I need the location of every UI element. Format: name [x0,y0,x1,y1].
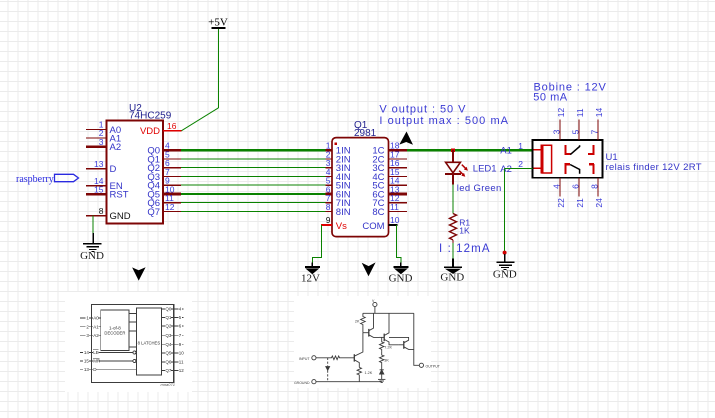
Q1 pin 16 3C [372,158,407,174]
cell clamp diode [380,370,384,379]
IC U2 74HC259 [107,103,172,224]
Q1 pin1 marker [335,143,338,146]
relay pin 8/24 bottom stub [589,178,604,208]
svg-text:22: 22 [556,198,566,208]
wire Vs to 12V supply [312,225,321,266]
block output lead [162,369,184,371]
svg-text:1-of-8: 1-of-8 [109,325,121,330]
net label raspberry [16,174,79,185]
cell transistor T1 [363,313,379,337]
svg-text:2K: 2K [355,320,360,324]
svg-text:7: 7 [589,129,599,134]
block output lead [162,352,184,354]
Q1 pin 14 5C [372,176,407,192]
Q1 pin 1 1IN [326,141,351,157]
svg-text:12V: 12V [301,272,320,284]
U2 pin 6 Q2 [147,158,181,174]
cell input terminal [312,356,316,360]
svg-text:Vs: Vs [336,221,347,232]
relay pin A1 [500,141,523,157]
svg-text:OUTPUT: OUTPUT [426,364,441,368]
Q1 pin 10 COM [362,215,399,232]
svg-text:15: 15 [84,359,90,364]
Q1 pin 4 4IN [326,167,351,183]
relay contact upper fixed 7 [588,145,594,154]
inverter bubble LE [133,351,136,354]
ground GND under R1 [440,267,464,284]
svg-text:led Green: led Green [457,183,502,194]
cell base-emitter diode dashed [327,358,329,382]
supply symbol 12V [301,267,320,285]
svg-text:11: 11 [179,359,184,364]
decoder to latches line [129,321,136,323]
cell tiny labels [294,299,441,385]
svg-text:11: 11 [390,202,399,212]
svg-text:GND: GND [110,211,131,222]
cell Vs terminal [373,302,377,306]
ground GND under A2 [493,254,517,280]
svg-text:5: 5 [570,129,580,134]
power +5V [208,17,228,29]
wire Q0 to 1IN [181,149,326,151]
svg-text:10: 10 [179,351,185,356]
U2 pin 12 Q7 [147,202,181,218]
overline LE [93,349,98,351]
relay pin 5/11 top stub [570,108,585,140]
annotation arrow down between 12V and GND [362,262,376,276]
cell middle resistor chain [380,337,384,351]
svg-text:COM: COM [362,221,384,232]
svg-text:I output max : 500 mA: I output max : 500 mA [379,115,509,127]
block diagram labels [84,307,184,373]
svg-text:RST: RST [110,190,129,201]
block input lead D pin 13 [80,368,136,370]
svg-text:Q1: Q1 [165,315,172,320]
svg-text:VDD: VDD [140,126,160,137]
svg-text:V output : 50 V: V output : 50 V [379,104,466,116]
svg-text:8: 8 [99,206,104,216]
Q1 pin 11 8C [372,202,407,218]
Q1 pin 15 4C [372,167,407,183]
relay contact upper mover 5 [570,145,579,154]
svg-text:A0: A0 [93,316,99,321]
U2 pin 1 A0 [86,120,121,136]
wire 1C to relay A1 [407,149,533,151]
svg-text:14: 14 [84,350,90,355]
svg-text:13: 13 [84,367,90,372]
svg-text:12: 12 [165,202,175,212]
svg-text:7.2K: 7.2K [384,346,392,350]
wire Q1 to 2IN [181,158,326,160]
Q1 pin 18 1C [372,141,407,157]
junction node LED anode [451,148,455,152]
block output lead [162,334,184,336]
svg-text:Q4: Q4 [165,342,172,347]
figure 2981 driver cell background [294,296,431,388]
overline MR [93,357,99,359]
svg-text:74HC259: 74HC259 [129,111,172,122]
svg-text:Q0: Q0 [165,307,172,312]
svg-text:8: 8 [589,184,599,189]
wire relay A2 to ground [504,168,532,251]
svg-text:raspberry: raspberry [16,174,54,185]
wire Q7 to 8IN [181,210,326,212]
svg-text:Q3: Q3 [165,333,172,338]
block input lead A1 pin 2 [80,326,101,328]
U2 pin 2 A1 [86,128,121,144]
wire Q4 to 5IN [181,184,326,186]
svg-text:D: D [110,164,117,175]
svg-text:8: 8 [326,202,331,212]
wire LED to R1 [452,185,454,214]
cell transistor T2 [379,313,399,345]
junction node A2 ground [503,251,507,255]
U2 pin 5 Q1 [147,149,181,165]
cell resistor 2K [361,313,366,332]
relay pin 3/12 top stub [551,107,566,140]
relay contact lower fixed 8 [589,164,594,174]
block 1-of-8 decoder [101,310,129,351]
svg-text:10: 10 [390,215,400,225]
U2 pin 9 Q4 [147,176,181,192]
svg-text:A2: A2 [500,164,512,175]
block input lead MR pin 15 [80,360,136,362]
figure 74HC259 block diagram background [65,292,192,392]
ground GND under U2 [80,244,104,262]
svg-text:14: 14 [594,107,604,117]
svg-text:Q2: Q2 [165,324,172,329]
Q1 pin 6 6IN [326,184,351,200]
svg-text:+5V: +5V [208,17,228,29]
svg-text:12: 12 [179,368,185,373]
decoder to latches line [129,346,136,348]
svg-text:GND: GND [493,268,517,280]
cell input resistor [316,356,354,360]
relay pin 7/14 top stub [589,107,604,140]
Q1 pin 13 6C [372,184,407,200]
svg-text:GND: GND [440,272,464,284]
U2 pin 7 Q3 [147,167,181,183]
block output lead [162,316,184,318]
svg-text:3: 3 [99,137,104,147]
svg-text:mna071: mna071 [161,382,175,387]
cell right rail to output [414,313,420,365]
svg-text:A2: A2 [93,333,99,338]
relay pin 4/22 bottom stub [551,178,566,208]
svg-text:6: 6 [570,184,580,189]
Q1 pin 3 3IN [326,158,351,174]
annotation arrow up near Q1 pin 18 [399,132,413,145]
relay pin A2 [500,159,523,175]
cell emitter resistor 1.2K [357,367,361,381]
resistor R1 1K [450,214,471,244]
svg-text:8 LATCHES: 8 LATCHES [138,341,161,346]
svg-text:LED1: LED1 [473,164,497,175]
block 8 latches [136,308,161,375]
Q1 pin 9 Vs [321,215,347,232]
wire Q6 to 7IN [181,202,326,204]
wire +5V to VDD [181,29,218,131]
block output lead [162,308,184,310]
svg-text:INPUT: INPUT [299,357,310,361]
svg-text:Q5: Q5 [165,351,172,356]
wire R1 to ground [452,243,454,267]
cell ground terminal [312,380,316,384]
svg-text:12: 12 [556,107,566,117]
svg-text:LE: LE [93,350,99,355]
svg-text:A2: A2 [110,142,122,153]
relay contact lower fixed 4 [565,164,571,174]
LED LED1 [445,162,502,194]
cell transistor T3 [389,337,414,349]
U2 pin 16 VDD [140,121,181,137]
wire Q3 to 4IN [181,175,326,177]
Q1 pin 12 7C [372,193,407,209]
block input lead A0 pin 1 [80,317,101,319]
svg-text:Q7: Q7 [147,207,160,218]
Q1 pin 7 7IN [326,193,351,209]
U2 pin 10 Q5 [147,184,181,200]
svg-text:Q7: Q7 [165,368,172,373]
relay U1 body [533,140,702,178]
decoder to latches line [129,313,136,315]
Q1 pin 17 2C [372,149,407,165]
U2 pin 15 RST [86,184,129,200]
wire COM to ground [397,225,401,266]
block input lead A2 pin 3 [80,334,101,336]
svg-text:Q6: Q6 [165,359,172,364]
annotation arrow down below U2 [132,267,146,280]
svg-text:relais finder 12V 2RT: relais finder 12V 2RT [606,162,702,173]
Q1 pin 8 8IN [326,202,351,218]
svg-text:8C: 8C [372,207,384,218]
Q1 pin 5 5IN [326,176,351,192]
svg-text:11: 11 [575,108,585,117]
block input lead LE pin 14 [80,352,136,354]
IC Q1 2981 [332,120,389,236]
U2 pin 8 GND [86,206,131,222]
relay coil [534,145,552,174]
svg-text:2: 2 [518,159,523,169]
svg-text:16: 16 [167,121,177,131]
svg-text:1: 1 [518,141,523,151]
U2 pin 13 D [86,159,117,175]
relay pin 6/21 bottom stub [570,178,585,208]
relay contact lower mover 6 [570,165,580,174]
wire Q2 to 3IN [181,167,326,169]
inverter bubble MR [133,360,136,363]
svg-text:A1: A1 [500,146,512,157]
svg-text:9: 9 [326,215,331,225]
svg-text:8IN: 8IN [336,207,351,218]
svg-text:GND: GND [389,272,413,284]
svg-text:13: 13 [94,159,104,169]
svg-text:24: 24 [594,198,604,208]
svg-text:2981: 2981 [354,128,377,139]
Q1 pin 2 2IN [326,149,351,165]
svg-text:50 mA: 50 mA [533,92,567,104]
cell earth symbol [378,379,385,382]
block output lead [162,325,184,327]
block diagram outer box [91,305,173,383]
svg-text:GROUND: GROUND [294,381,310,385]
relay contact upper fixed 3 [565,145,570,154]
svg-text:3K: 3K [384,359,389,363]
svg-text:15: 15 [94,184,104,194]
svg-text:21: 21 [575,198,585,208]
cell Vs stem [374,307,376,314]
U2 pin 3 A2 [86,137,121,153]
cell top rail [363,312,414,314]
cell output terminal [419,363,423,367]
svg-text:MR: MR [93,359,101,364]
svg-text:A1: A1 [93,324,99,329]
ground GND under COM [389,267,413,285]
svg-text:GND: GND [80,250,104,262]
wire U2 GND pin to ground [92,216,94,244]
svg-text:DECODER: DECODER [104,330,125,335]
svg-text:1K: 1K [459,226,470,236]
U2 pin 11 Q6 [147,193,181,209]
block output lead [162,361,184,363]
svg-text:4: 4 [551,184,561,189]
block output lead [162,343,184,345]
svg-text:3: 3 [551,129,561,134]
U2 pin 14 EN [86,176,123,192]
svg-text:I : 12mA: I : 12mA [439,243,491,255]
decoder to latches line [129,330,136,332]
cell input transistor T0 [354,333,363,368]
svg-text:1.2K: 1.2K [365,371,373,375]
cell ground rail [316,381,382,383]
wire Q5 to 6IN [181,193,326,195]
wire junction to LED [452,150,454,162]
U2 pin 4 Q0 [147,141,181,157]
